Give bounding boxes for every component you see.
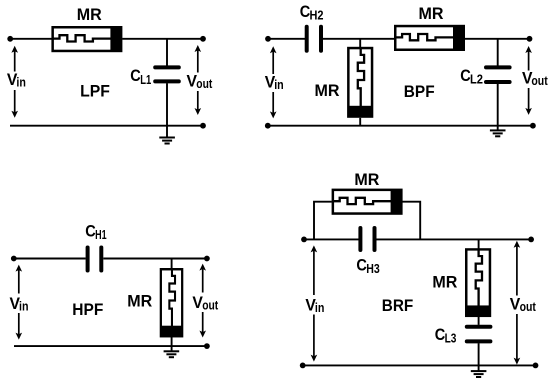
node: BPF Vin bottom terminal xyxy=(265,123,271,129)
node: BPF Vin top terminal xyxy=(265,36,271,42)
capacitor CL3 xyxy=(467,327,491,342)
label Vin (BPF) xyxy=(265,73,284,93)
svg-text:L3: L3 xyxy=(445,332,457,346)
wire: HPF memristor stem bottom + ground stem xyxy=(171,337,173,352)
wire: BPF top middle segment xyxy=(323,38,395,40)
node: BRF Vin top terminal xyxy=(301,237,307,243)
wire: HPF memristor stem top xyxy=(171,259,173,269)
wire: BRF output branch stem top xyxy=(478,239,480,249)
label CL3 xyxy=(435,326,457,346)
wire: BRF memristor left lead + riser xyxy=(314,202,332,240)
label Vout (BPF) xyxy=(522,69,548,89)
ground (LPF) xyxy=(159,126,175,144)
label Vin (BRF) xyxy=(305,296,324,316)
node: BPF Vout bottom terminal xyxy=(530,123,536,129)
memristor MR (BPF series) xyxy=(395,25,465,50)
wire: BRF stem below CL3 xyxy=(478,343,480,365)
wire: BPF top right segment xyxy=(465,38,530,40)
svg-text:MR: MR xyxy=(432,274,457,292)
wire: HPF top left segment xyxy=(14,258,86,260)
node: HPF Vout top terminal xyxy=(204,256,210,262)
svg-text:MR: MR xyxy=(127,293,152,311)
ground (BRF) xyxy=(471,365,487,377)
wire: BPF shunt memristor stem bottom xyxy=(359,118,361,126)
wire: BRF main right segment xyxy=(377,238,532,240)
wire: BPF CL2 branch upper xyxy=(497,39,499,66)
wire: BRF main left segment xyxy=(304,238,359,240)
arrow Vout (BPF) xyxy=(525,46,532,115)
node: HPF Vout bottom terminal xyxy=(204,343,210,349)
label CH2 xyxy=(300,3,324,23)
svg-text:out: out xyxy=(520,300,537,314)
node: BRF Vout bottom terminal xyxy=(533,363,539,369)
wire: BPF bottom xyxy=(268,125,533,127)
node: HPF Vin terminal xyxy=(11,256,17,262)
wire: LPF bottom xyxy=(10,125,203,127)
wire: BPF shunt memristor stem top xyxy=(359,39,361,48)
node: LPF Vin terminal xyxy=(7,36,13,42)
arrow Vin (BRF) xyxy=(311,245,318,361)
arrow Vout (HPF) xyxy=(199,264,206,338)
label CL1 xyxy=(130,67,151,87)
wire: BPF top left segment xyxy=(268,38,305,40)
capacitor CL2 xyxy=(486,67,510,82)
svg-text:MR: MR xyxy=(315,82,340,100)
label Vout (LPF) xyxy=(187,72,213,92)
label CH3 xyxy=(356,256,379,276)
memristor MR (BPF shunt, vertical) xyxy=(348,47,373,117)
svg-text:BRF: BRF xyxy=(382,297,414,315)
wire: LPF capacitor branch upper xyxy=(166,39,168,66)
label Vin (HPF) xyxy=(10,294,29,314)
memristor MR (LPF) xyxy=(52,27,122,52)
svg-text:BPF: BPF xyxy=(404,83,435,101)
svg-text:in: in xyxy=(315,301,325,315)
wire: HPF top right segment xyxy=(103,258,207,260)
svg-text:L2: L2 xyxy=(470,73,483,87)
svg-text:H1: H1 xyxy=(95,228,107,242)
arrow Vout (BRF) xyxy=(514,241,521,365)
node: LPF Vout top terminal xyxy=(200,36,206,42)
svg-text:MR: MR xyxy=(354,171,379,189)
arrow Vin (HPF) xyxy=(15,265,22,340)
svg-text:H3: H3 xyxy=(366,262,380,276)
ground (BPF) xyxy=(490,126,506,137)
svg-text:MR: MR xyxy=(77,6,102,24)
svg-text:out: out xyxy=(196,77,213,91)
wire: LPF capacitor branch lower xyxy=(166,83,168,126)
svg-text:in: in xyxy=(16,75,26,89)
capacitor CL1 xyxy=(155,67,179,81)
wire: BRF memristor right lead + riser xyxy=(402,202,420,240)
wire: LPF top right segment xyxy=(122,38,203,40)
capacitor CH2 xyxy=(307,27,321,51)
wire: LPF top left segment xyxy=(10,38,52,40)
capacitor CH3 xyxy=(360,228,374,250)
memristor MR (HPF, vertical) xyxy=(160,268,183,337)
arrow Vout (LPF) xyxy=(195,45,202,115)
svg-text:MR: MR xyxy=(419,5,444,23)
svg-text:HPF: HPF xyxy=(72,301,103,319)
memristor MR (BRF series, vertical) xyxy=(466,249,491,317)
svg-text:out: out xyxy=(531,74,548,88)
wire: BRF bottom xyxy=(303,364,536,366)
node: BRF Vout top terminal xyxy=(528,237,534,243)
label CH1 xyxy=(85,223,106,243)
node: LPF Vout bottom terminal xyxy=(200,123,206,129)
svg-text:LPF: LPF xyxy=(80,82,110,100)
memristor MR (BRF parallel) xyxy=(332,189,402,214)
node: BRF Vin bottom terminal xyxy=(300,363,306,369)
svg-text:in: in xyxy=(274,78,284,92)
ground (HPF) xyxy=(164,351,180,357)
svg-text:out: out xyxy=(202,299,219,313)
arrow Vin (BPF) xyxy=(270,46,277,118)
wire: HPF bottom xyxy=(14,345,207,347)
arrow Vin (LPF) xyxy=(11,46,18,118)
svg-text:in: in xyxy=(19,299,29,313)
label Vin (LPF) xyxy=(7,70,26,90)
svg-text:L1: L1 xyxy=(140,73,151,87)
capacitor CH1 xyxy=(88,248,102,271)
label CL2 xyxy=(460,67,483,87)
wire: BPF CL2 branch lower xyxy=(497,84,499,126)
wire: BRF stem between MR and CL3 xyxy=(478,317,480,325)
node: BPF Vout top terminal xyxy=(527,36,533,42)
svg-text:H2: H2 xyxy=(310,9,324,23)
label Vout (HPF) xyxy=(192,293,218,313)
label Vout (BRF) xyxy=(510,295,537,315)
